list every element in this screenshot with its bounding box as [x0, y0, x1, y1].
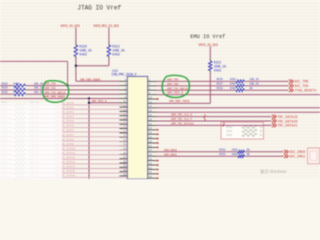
svg-text:VSYS_IO_3V3: VSYS_IO_3V3: [198, 44, 218, 48]
svg-text:SOC_EMU1: SOC_EMU1: [289, 156, 305, 160]
svg-text:0E: 0E: [249, 87, 253, 90]
svg-text:ARM_TRC_DATA18: ARM_TRC_DATA18: [171, 123, 194, 126]
svg-text:CON_PMC_ZX20_F: CON_PMC_ZX20_F: [112, 73, 137, 77]
svg-text:TRC_DATA20: TRC_DATA20: [277, 120, 297, 124]
svg-text:0402: 0402: [214, 68, 222, 72]
svg-text:R286: R286: [227, 134, 233, 137]
svg-text:0402: 0402: [230, 78, 237, 81]
svg-text:R332: R332: [219, 153, 226, 156]
svg-text:0E: 0E: [247, 153, 251, 156]
svg-text:0E: 0E: [247, 149, 251, 152]
svg-text:EMU IO Vref: EMU IO Vref: [190, 34, 225, 40]
svg-text:ARM_EMU0: ARM_EMU0: [164, 149, 177, 152]
svg-text:ARM_TCK_SWCLK: ARM_TCK_SWCLK: [167, 87, 188, 90]
svg-text:10E_1%: 10E_1%: [34, 87, 44, 90]
svg-text:SOC_TDO: SOC_TDO: [294, 85, 308, 89]
svg-text:R325: R325: [2, 91, 9, 94]
svg-text:10E_1%: 10E_1%: [249, 83, 259, 86]
svg-text:激活 Windows: 激活 Windows: [260, 168, 287, 175]
svg-text:ARM_TMS: ARM_TMS: [167, 79, 179, 82]
svg-text:ARM_EMU1: ARM_EMU1: [164, 153, 177, 156]
svg-text:0402: 0402: [230, 87, 237, 90]
svg-text:0402: 0402: [14, 87, 21, 90]
svg-text:ARM_TRC_CLK_N: ARM_TRC_CLK_N: [171, 114, 192, 117]
svg-text:R285: R285: [227, 130, 233, 133]
svg-text:VSYS_MCU_IO_3V3: VSYS_MCU_IO_3V3: [93, 25, 119, 29]
svg-text:TRC_DATA19: TRC_DATA19: [277, 116, 297, 120]
svg-text:ARM_TCK_SWCLK: ARM_TCK_SWCLK: [45, 91, 66, 94]
svg-text:R327: R327: [217, 83, 224, 86]
svg-text:R284: R284: [227, 126, 233, 129]
svg-text:R326: R326: [217, 78, 224, 81]
svg-text:SOC_TMS: SOC_TMS: [294, 81, 308, 85]
svg-text:0402: 0402: [232, 149, 239, 152]
svg-text:0402: 0402: [14, 82, 21, 85]
svg-text:VSYS_IO_3V3: VSYS_IO_3V3: [60, 25, 80, 29]
svg-text:ARM_VREF_DEBUG: ARM_VREF_DEBUG: [45, 96, 66, 99]
svg-text:R323: R323: [2, 82, 9, 85]
svg-text:ARM_VREF_TRACE: ARM_VREF_TRACE: [169, 100, 190, 103]
svg-text:0402: 0402: [79, 52, 87, 56]
svg-text:0402: 0402: [232, 153, 239, 156]
svg-text:0402: 0402: [14, 91, 21, 94]
svg-text:10E_1%: 10E_1%: [249, 78, 259, 81]
svg-text:ARM_TRST_N: ARM_TRST_N: [92, 100, 108, 103]
svg-text:SOC_EMU0: SOC_EMU0: [289, 151, 305, 155]
svg-text:JTAG IO Vref: JTAG IO Vref: [77, 4, 121, 11]
svg-text:JTAG_RESETn: JTAG_RESETn: [294, 90, 316, 94]
svg-text:0402: 0402: [230, 83, 237, 86]
svg-text:ARM_TDI: ARM_TDI: [45, 87, 57, 90]
svg-text:ARM_TDO: ARM_TDO: [167, 83, 179, 86]
svg-text:R328: R328: [217, 87, 224, 90]
svg-text:ARM_VREF_DEBUG: ARM_VREF_DEBUG: [80, 79, 101, 82]
svg-text:R324: R324: [2, 87, 9, 90]
svg-text:R331: R331: [219, 149, 226, 152]
svg-text:TRC_DATA21: TRC_DATA21: [277, 125, 297, 129]
svg-text:ARM_TRC_CLK_P: ARM_TRC_CLK_P: [171, 118, 192, 121]
svg-text:10E_1%: 10E_1%: [34, 82, 44, 85]
svg-text:ARM_TRST_N: ARM_TRST_N: [167, 92, 184, 95]
svg-text:ARM_TMS: ARM_TMS: [45, 83, 57, 86]
svg-text:0402: 0402: [112, 52, 120, 56]
